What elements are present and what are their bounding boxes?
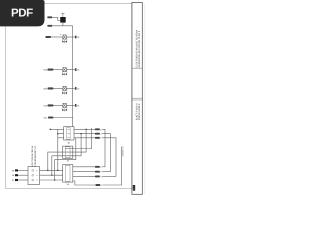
- node J3: [85, 129, 86, 130]
- title text upper: [135, 29, 141, 67]
- pin 12: [75, 68, 77, 71]
- diode D10: [62, 37, 67, 42]
- wire pin to riser: [102, 166, 105, 168]
- wire lamp to pin 10: [66, 36, 75, 38]
- svg-text:LICHTSCHALTER S4: LICHTSCHALTER S4: [31, 145, 34, 167]
- connector T2: [47, 25, 52, 27]
- wire K2 row right y137.8: [74, 137, 95, 139]
- wire K2 row2 left stub: [58, 133, 64, 135]
- terminal pin 30: [15, 169, 18, 171]
- connector C5: [48, 116, 53, 118]
- wire drop outer: [65, 128, 92, 149]
- node J5b: [54, 179, 55, 180]
- lamp E14: [63, 103, 66, 107]
- wire pin to riser: [102, 171, 110, 173]
- wire K2 row1 left: [50, 128, 63, 130]
- diode D13: [62, 88, 67, 93]
- terminal pin 31: [15, 179, 18, 181]
- wire X1 row right y171.7: [73, 171, 95, 173]
- connector C14: [48, 104, 54, 106]
- node J1: [49, 129, 50, 130]
- wire lamp to pin 12: [66, 69, 75, 71]
- label X2 vertical: [31, 145, 37, 167]
- connector T1: [47, 16, 52, 18]
- wire C5 to bus: [53, 117, 72, 119]
- terminal stub K1: [61, 13, 64, 17]
- pin Pb3: [95, 171, 100, 173]
- node J3b: [47, 170, 48, 171]
- drawing frame: [6, 4, 132, 189]
- wire row 13: [53, 87, 63, 89]
- connector C12: [48, 69, 54, 71]
- wire K1 down: [62, 23, 64, 26]
- wire X1 row right y176.4: [73, 175, 95, 177]
- wire row 14: [53, 104, 63, 106]
- wire terminal to X2: [18, 179, 28, 181]
- connector X2: [28, 167, 40, 185]
- node J4b: [51, 174, 52, 175]
- wire T2 to bus: [52, 25, 72, 27]
- wire terminal to X2: [18, 169, 28, 171]
- PDF badge: [0, 0, 45, 26]
- wire pin to riser: [102, 175, 116, 177]
- connector X1: [63, 165, 73, 183]
- connector C13: [48, 87, 54, 89]
- wire lamp to pin 13: [66, 87, 75, 89]
- title text lower: [135, 103, 141, 121]
- terminal pin 15: [15, 174, 18, 176]
- diode D14: [62, 105, 67, 110]
- wire pin to riser 4: [103, 147, 122, 186]
- title block column: [132, 3, 143, 195]
- relay K2: [64, 127, 74, 140]
- wire T1 to K1: [52, 17, 60, 20]
- wire drop J3: [48, 129, 86, 170]
- relay K3: [63, 146, 73, 158]
- wire lamp to pin 14: [66, 104, 75, 106]
- pin 14: [75, 104, 77, 107]
- svg-text:GN/SW 1.5: GN/SW 1.5: [121, 145, 124, 156]
- svg-text:PDF: PDF: [11, 7, 33, 19]
- wire X1 bottom jog: [73, 181, 96, 185]
- page right edge: [144, 4, 146, 194]
- wire terminal to X2: [18, 174, 28, 176]
- node J2b: [57, 170, 58, 171]
- lamp E12: [63, 68, 66, 72]
- pin 10: [75, 36, 77, 39]
- wire bus vertical: [72, 26, 74, 127]
- wire pin to riser: [102, 129, 105, 167]
- pin P3: [95, 133, 100, 135]
- wire K2 row3 left stub: [58, 137, 64, 139]
- svg-text:STEUERGERAET A7: STEUERGERAET A7: [34, 145, 37, 167]
- wire K2 row right y129.3: [74, 128, 95, 130]
- lamp E10: [63, 35, 66, 39]
- wire X2 to X1: [40, 169, 63, 171]
- diode D12: [62, 70, 67, 75]
- pin Pb5: [95, 184, 100, 186]
- svg-text:STAND 10/02 A: STAND 10/02 A: [138, 103, 141, 120]
- wire drop row3: [55, 138, 76, 180]
- wire row 12: [53, 69, 63, 71]
- svg-text:AUSSENBELEUCHTUNG PLAN 2: AUSSENBELEUCHTUNG PLAN 2: [138, 30, 141, 67]
- wire bridge riser: [57, 129, 59, 170]
- wire pin to riser: [102, 134, 110, 172]
- pin Pb2: [95, 166, 100, 168]
- connector T3: [45, 36, 51, 38]
- lamp E13: [63, 86, 66, 90]
- wire T3 to lamp: [51, 36, 63, 38]
- wire X2 to X1: [40, 179, 63, 181]
- title label bottom: [133, 185, 135, 191]
- pin Pb4: [95, 175, 100, 177]
- pin P2: [95, 137, 100, 139]
- wire drop J4: [52, 134, 81, 176]
- node J2: [57, 133, 58, 134]
- wire K2 row right y133.7: [74, 133, 95, 135]
- wire X2 to X1: [40, 174, 63, 176]
- wire pin to riser: [102, 138, 116, 177]
- pin P2: [95, 128, 100, 130]
- pin 13: [75, 87, 77, 90]
- wire X1 row right y166.8: [73, 166, 95, 168]
- node J4: [80, 133, 81, 134]
- relay K1 solid: [60, 17, 65, 23]
